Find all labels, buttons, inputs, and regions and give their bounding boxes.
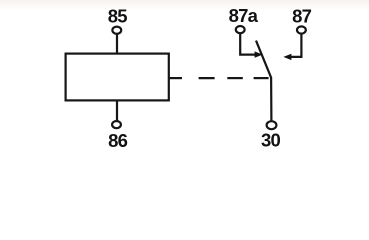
arrowhead at 87a contact [255,51,263,57]
svg-text:87: 87 [292,6,311,27]
wire terminal 87a lead [240,33,256,54]
svg-text:86: 86 [108,130,127,151]
svg-text:30: 30 [261,129,280,150]
wire coil to terminal 86 [116,100,118,120]
terminal circle 87a [236,26,245,33]
relay coil box [66,54,169,101]
arrowhead at 87 contact [283,54,291,60]
svg-text:85: 85 [108,6,127,27]
terminal circle 85 [112,27,121,34]
svg-text:87a: 87a [229,5,259,26]
terminal circle 30 [267,121,277,129]
dashed actuation link wire [170,77,183,79]
terminal circle 87 [297,26,306,33]
wire terminal 85 to coil [116,34,118,54]
terminal circle 86 [112,121,121,128]
wire terminal 87 lead [290,34,301,57]
wire blade pivot to terminal 30 [270,77,272,121]
switch blade [256,41,271,78]
